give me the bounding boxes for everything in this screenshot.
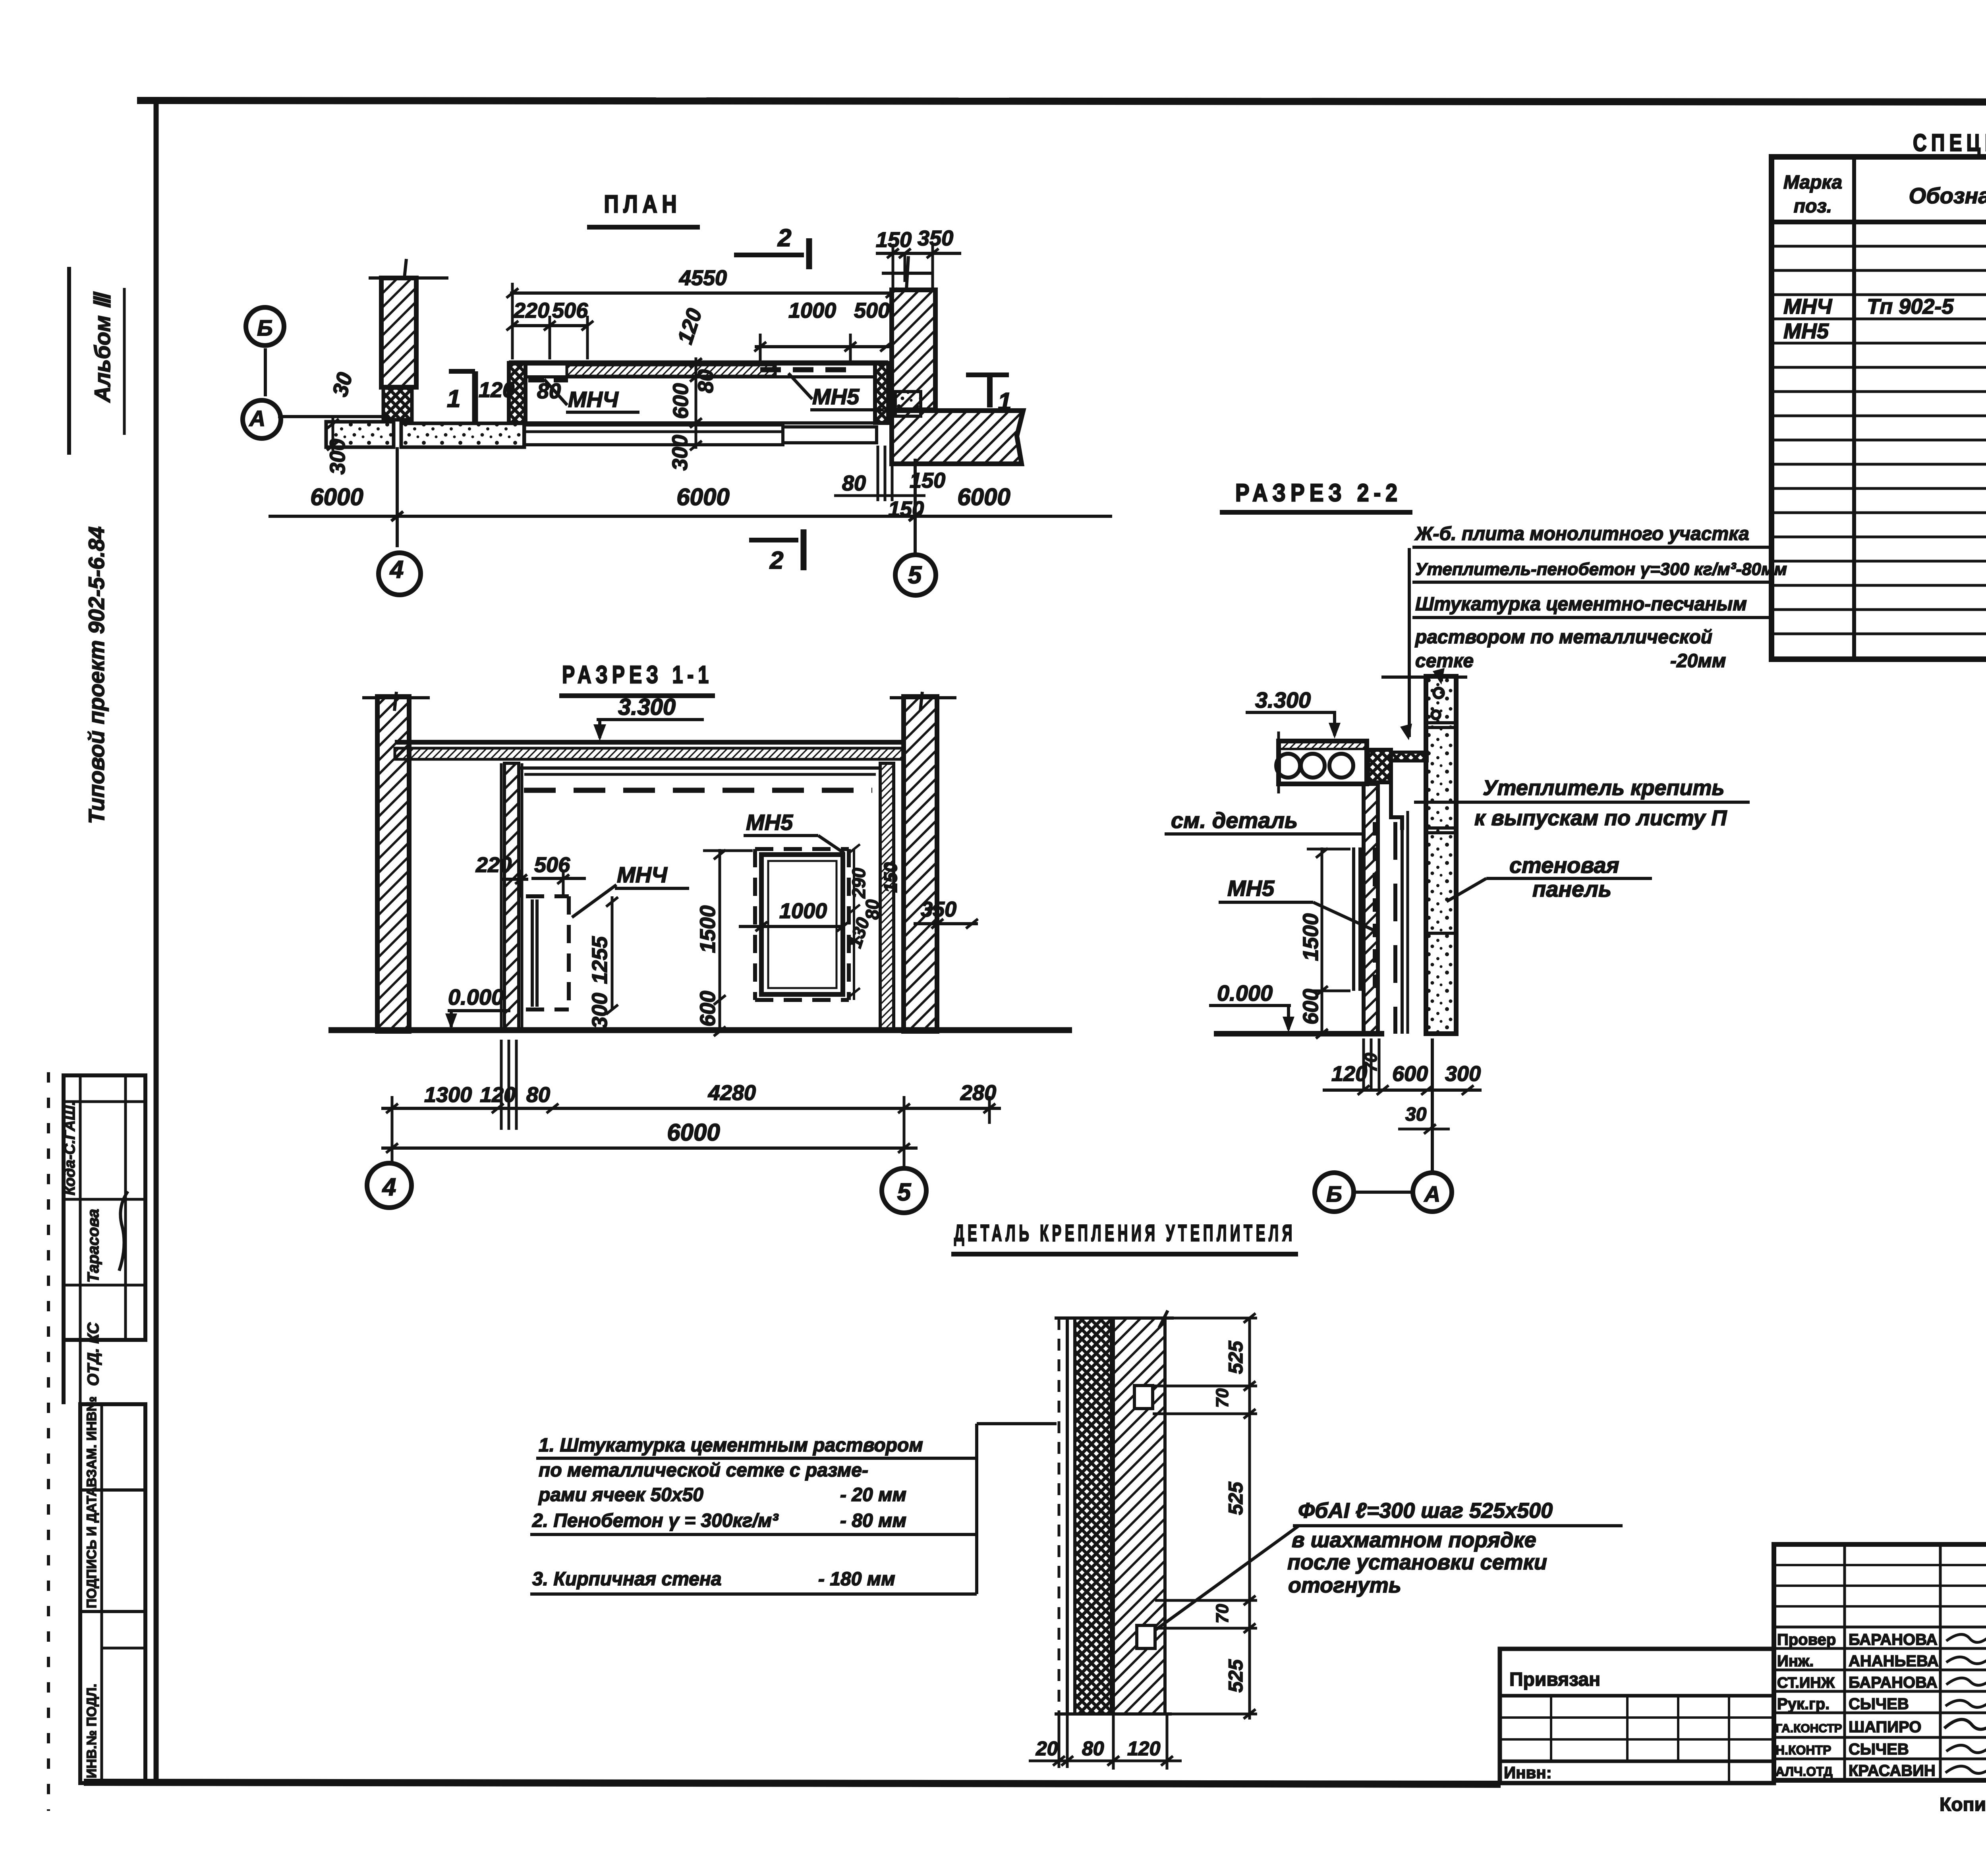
wall mesh dashed line [1058,1318,1061,1714]
svg-text:4: 4 [389,556,404,583]
svg-text:АЛЧ.ОТД: АЛЧ.ОТД [1775,1764,1833,1779]
svg-text:4: 4 [382,1173,396,1201]
svg-text:506: 506 [552,299,588,322]
svg-text:80: 80 [842,471,866,495]
svg-text:стеновая: стеновая [1509,853,1619,878]
svg-text:5: 5 [897,1179,912,1206]
svg-text:Копировал: Каршунова 19746-03: Копировал: Каршунова 19746-03 [1940,1794,1986,1815]
floor thin band [524,425,783,445]
wall top edge [1055,1316,1174,1320]
svg-text:МН5: МН5 [812,384,860,409]
svg-text:120: 120 [1127,1737,1161,1760]
corner wall axis tick [882,272,933,275]
room interior bottom line [525,421,875,425]
svg-text:220: 220 [475,853,512,877]
svg-text:6000: 6000 [667,1119,720,1146]
svg-text:70: 70 [1213,1388,1232,1408]
svg-text:Типовой проект 902-5-6.84: Типовой проект 902-5-6.84 [84,527,109,824]
left wall of chamber [509,363,525,423]
svg-text:Альбом Ⅲ: Альбом Ⅲ [90,291,115,403]
svg-text:СЫЧЕВ: СЫЧЕВ [1849,1741,1909,1758]
ceiling finish lines [519,766,881,770]
svg-text:70: 70 [1213,1604,1232,1623]
axis 4 drop line [396,447,399,547]
svg-text:80: 80 [1082,1737,1104,1760]
svg-text:ПОДПИСЬ И ДАТА: ПОДПИСЬ И ДАТА [84,1487,99,1608]
column lines [1852,157,1856,659]
row lines [1772,245,1986,248]
floor right block [783,427,877,443]
svg-text:ПЛАН: ПЛАН [604,191,682,218]
svg-text:ГА.КОНСТР: ГА.КОНСТР [1775,1722,1842,1735]
extension lines below floor [1362,1038,1365,1089]
header bottom line [1772,220,1986,224]
pier top edge line [369,276,448,280]
main stamp outline [1774,1544,1986,1780]
svg-text:120: 120 [1331,1062,1367,1086]
axis A line [278,415,389,418]
svg-text:1000: 1000 [788,299,836,322]
svg-text:300: 300 [668,435,692,471]
svg-text:МНЧ: МНЧ [1783,295,1833,318]
svg-text:панель: панель [1532,876,1611,901]
svg-text:3.300: 3.300 [1255,687,1311,712]
axis circle 5 [882,1168,926,1213]
scan edge dotted line [47,1072,50,1811]
right wall axis tick [890,696,956,699]
hollow core slab [1279,741,1367,784]
room top outer wall line [509,361,888,366]
floor slab mid block [401,423,524,447]
svg-text:300: 300 [1445,1062,1481,1086]
floor line [328,1027,1072,1033]
svg-text:Штукатурка цементно-песчаным: Штукатурка цементно-песчаным [1415,594,1747,615]
MNCH embedded element dashed [526,894,569,898]
svg-text:ДЕТАЛЬ КРЕПЛЕНИЯ УТЕПЛИТЕЛЯ: ДЕТАЛЬ КРЕПЛЕНИЯ УТЕПЛИТЕЛЯ [954,1220,1296,1246]
axis circle B2 [1315,1173,1354,1212]
extension lines below wall [1058,1714,1061,1768]
svg-text:80: 80 [526,1083,550,1107]
svg-text:506: 506 [534,853,570,877]
brick pier on axis 4 [381,278,416,387]
pier concrete base [383,388,412,420]
top border line [137,100,1986,102]
svg-text:БАРАНОВА: БАРАНОВА [1849,1631,1938,1648]
svg-text:2: 2 [777,224,791,252]
svg-text:РАЗРЕЗ 2-2: РАЗРЕЗ 2-2 [1235,479,1402,507]
top extension line [1381,676,1467,679]
album underline [123,288,126,435]
insulation strip to wall [1391,752,1427,761]
MN5 embedded element [755,847,849,851]
svg-text:120: 120 [480,1083,516,1107]
plan view [243,191,1112,595]
MNCH dashed embed top left [528,378,568,382]
svg-text:150: 150 [880,862,901,893]
interior partition left [504,763,519,1031]
partition extension lines [500,1040,503,1130]
step lines under corner [1391,782,1402,830]
svg-text:- 180 мм: - 180 мм [818,1569,895,1590]
pier axis tick [404,259,406,278]
svg-text:1500: 1500 [696,905,720,953]
svg-text:4550: 4550 [679,266,727,290]
svg-text:МН5: МН5 [1227,876,1275,901]
right inner wall [880,763,894,1031]
title block [1500,1544,1986,1815]
svg-text:Обозначение: Обозначение [1909,183,1986,208]
plaster line [1066,1318,1069,1714]
svg-text:А: А [1424,1181,1440,1206]
anchor notch 2 [1137,1625,1155,1648]
svg-text:300: 300 [326,439,350,475]
foam concrete layer [1075,1318,1111,1714]
svg-text:6000: 6000 [957,484,1010,510]
corner block cross hatched [1368,750,1391,782]
svg-text:см. деталь: см. деталь [1171,808,1298,833]
svg-text:20: 20 [1036,1737,1058,1760]
svg-text:Рук.гр.: Рук.гр. [1777,1695,1830,1713]
svg-text:0.000: 0.000 [448,984,504,1009]
svg-text:6000: 6000 [310,484,363,510]
left thin rows [1774,1564,1986,1566]
svg-text:600: 600 [669,383,693,419]
svg-text:Тарасова: Тарасова [85,1209,102,1283]
leader to mesh [1408,548,1411,737]
specification table [1772,129,1986,659]
axis circle A2 [1413,1173,1452,1212]
signature box upper [64,1075,145,1340]
axis circle 4 [367,1163,411,1208]
svg-text:ФбАІ ℓ=300 шаг 525х500: ФбАІ ℓ=300 шаг 525х500 [1298,1499,1553,1523]
svg-text:1. Штукатурка цементным раство: 1. Штукатурка цементным раствором [539,1435,923,1456]
svg-text:525: 525 [1225,1340,1247,1374]
svg-text:80: 80 [694,369,718,393]
svg-text:290: 290 [848,868,869,899]
svg-text:Тп 902-5: Тп 902-5 [1867,295,1954,318]
svg-text:2: 2 [769,547,783,574]
scan edge line top [67,267,71,455]
svg-text:1: 1 [447,385,460,413]
MN5 dashed embed top [760,367,850,372]
svg-text:600: 600 [1392,1062,1428,1086]
top wall hatch strip [567,365,775,376]
corner wall vertical part [892,290,935,410]
bottom border line [84,1782,1501,1784]
section 1-1 [328,661,1072,1213]
svg-text:Б: Б [1326,1181,1342,1206]
svg-text:СЫЧЕВ: СЫЧЕВ [1849,1695,1909,1713]
svg-text:к выпускам по листу П: к выпускам по листу П [1474,806,1727,830]
axis circle B [246,307,284,345]
room top inner wall line [525,375,875,378]
svg-text:Привязан: Привязан [1509,1669,1600,1690]
leader to anchor text [1155,1526,1299,1630]
svg-text:- 20 мм: - 20 мм [840,1484,906,1505]
svg-text:Кода-С.ГАШ.: Кода-С.ГАШ. [62,1101,78,1195]
svg-text:Инвн:: Инвн: [1504,1763,1552,1782]
svg-text:600: 600 [1299,989,1323,1025]
svg-text:Провер: Провер [1777,1631,1836,1648]
svg-text:4280: 4280 [708,1081,756,1105]
axis circle A [243,400,281,438]
axis circle 5 [895,555,936,595]
svg-text:МНЧ: МНЧ [568,387,619,412]
interior vertical dim line [695,357,697,449]
svg-text:по металлической сетке с разме: по металлической сетке с разме- [539,1460,868,1481]
floor slab left block [326,422,394,447]
right wall of chamber [875,363,888,423]
svg-text:БАРАНОВА: БАРАНОВА [1849,1674,1938,1691]
privyazan table [1500,1649,1774,1783]
svg-text:РАЗРЕЗ 1-1: РАЗРЕЗ 1-1 [562,661,713,689]
svg-text:5: 5 [908,562,922,589]
svg-text:1300: 1300 [424,1083,472,1107]
svg-text:в шахматном порядке: в шахматном порядке [1292,1528,1536,1552]
svg-text:1000: 1000 [779,899,827,923]
svg-text:525: 525 [1225,1659,1247,1693]
svg-text:600: 600 [696,991,720,1027]
right outer brick wall [904,697,937,1031]
svg-text:-20мм: -20мм [1670,650,1726,672]
svg-text:А: А [249,406,265,431]
svg-text:МН5: МН5 [1783,319,1829,343]
svg-text:300: 300 [588,993,612,1029]
wall bottom edge [1055,1712,1172,1716]
svg-text:после установки сетки: после установки сетки [1287,1550,1547,1574]
svg-text:ОТД. КС: ОТД. КС [85,1322,102,1386]
axis circle 4 [379,553,421,595]
svg-text:Ж-б. плита монолитного участка: Ж-б. плита монолитного участка [1414,523,1749,544]
left margin column [48,267,145,1811]
svg-text:ИНВ.№ ПОДЛ.: ИНВ.№ ПОДЛ. [84,1684,99,1778]
svg-text:отогнуть: отогнуть [1288,1573,1401,1597]
left outer brick wall [377,697,409,1031]
brick wall layer [1113,1318,1165,1714]
svg-text:СТ.ИНЖ: СТ.ИНЖ [1777,1675,1835,1691]
inner wall hatched [1364,784,1378,1034]
dashed line below ceiling [524,788,872,793]
svg-text:раствором по металлической: раствором по металлической [1414,627,1712,648]
svg-text:80: 80 [862,899,883,920]
axis A drop line [1431,1038,1434,1172]
MN5 element [1352,847,1355,991]
svg-text:6000: 6000 [676,484,729,510]
lower gost boxes [80,1404,145,1783]
signature scribbles [1946,1634,1986,1642]
table outline [1772,157,1986,659]
section 2-2 [1165,479,1787,1212]
svg-text:0.000: 0.000 [1217,980,1273,1006]
svg-text:рами ячеек 50х50: рами ячеек 50х50 [538,1484,703,1505]
axis 5 drop line [914,459,917,553]
axis link line [264,348,267,396]
svg-text:120: 120 [479,378,514,402]
svg-text:Инж.: Инж. [1777,1652,1814,1670]
svg-text:АНАНЬЕВА: АНАНЬЕВА [1849,1652,1939,1670]
corner wall horizontal part [892,411,1023,464]
svg-text:3.300: 3.300 [618,694,676,720]
svg-text:МНЧ: МНЧ [617,862,668,887]
svg-text:350: 350 [921,897,956,921]
dim line right of MN5 [853,849,855,1000]
svg-text:Марка: Марка [1783,172,1842,193]
dim row 6000 [269,515,1112,518]
long dash gap line [1393,822,1397,1034]
svg-text:Утеплитель-пенобетон γ=300 кг/: Утеплитель-пенобетон γ=300 кг/м³-80мм [1415,560,1787,579]
left columns [1843,1544,1846,1780]
svg-text:1: 1 [998,388,1011,415]
axis link [1354,1191,1413,1194]
right dim line [1248,1318,1251,1720]
svg-text:220: 220 [513,299,549,322]
panel wall [1426,676,1456,1034]
svg-text:поз.: поз. [1794,196,1832,217]
detail [530,1220,1623,1770]
svg-text:- 80 мм: - 80 мм [840,1510,906,1531]
ceiling slab [395,740,904,745]
inner dashes [1373,822,1376,993]
svg-text:Н.КОНТР: Н.КОНТР [1775,1743,1831,1757]
floor line [1214,1031,1384,1036]
left border line [154,100,159,1783]
svg-text:30: 30 [1405,1104,1427,1125]
svg-text:2. Пенобетон γ = 300кг/м³: 2. Пенобетон γ = 300кг/м³ [532,1510,779,1531]
svg-text:350: 350 [918,226,953,250]
svg-text:500: 500 [854,299,890,322]
common rows [1774,1626,1986,1629]
svg-text:1255: 1255 [588,936,612,984]
svg-text:Утеплитель крепить: Утеплитель крепить [1483,776,1725,800]
svg-text:ВЗАМ. ИНВ№: ВЗАМ. ИНВ№ [84,1396,99,1487]
left wall axis tick [362,696,430,699]
svg-text:1500: 1500 [1299,913,1323,961]
svg-text:МН5: МН5 [746,810,793,835]
svg-text:СПЕЦИФИКАЦИЯ К ВЕНТКАМЕРЕ: СПЕЦИФИКАЦИЯ К ВЕНТКАМЕРЕ [1913,129,1986,156]
svg-text:Б: Б [257,315,273,340]
corner concrete block [895,392,921,416]
svg-text:КРАСАВИН: КРАСАВИН [1849,1762,1936,1779]
svg-text:3. Кирпичная стена: 3. Кирпичная стена [532,1569,722,1590]
svg-text:ШАПИРО: ШАПИРО [1849,1718,1921,1736]
anchor notch 1 [1134,1386,1153,1409]
svg-text:525: 525 [1225,1481,1247,1515]
